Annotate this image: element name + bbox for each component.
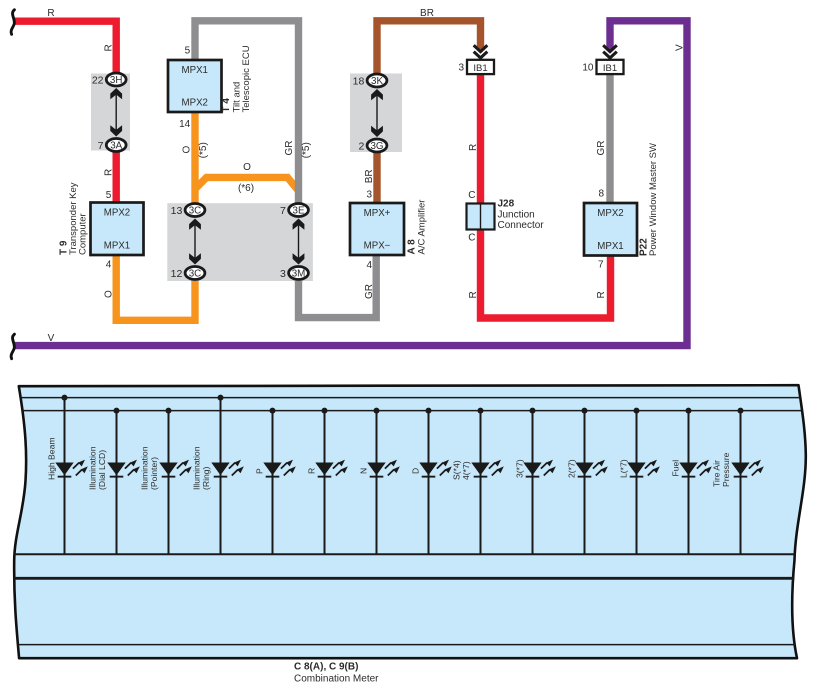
junction dot for 2(*7) <box>582 408 588 414</box>
lamp wire for Illumination (Dial LCD) <box>116 411 118 554</box>
connector panel 3C/3C/3E/3M shading <box>167 203 313 281</box>
meter bus line where lamp wires end <box>14 553 795 555</box>
lamp wire for 2(*7) <box>584 411 586 554</box>
connector 3C pin 13 <box>185 204 205 217</box>
twisted-pair arrow between 3K and 3G <box>376 94 378 132</box>
wire: GR from connector 3M pin 3 to A8 pin 4 (gray) <box>299 253 377 318</box>
svg-text:J28: J28 <box>498 199 515 210</box>
junction dot for L(*7) <box>634 408 640 414</box>
connector 3M pin 3 <box>289 267 309 280</box>
lamp wire for Illumination (Ring) <box>220 398 222 554</box>
junction dot for Fuel <box>686 408 692 414</box>
svg-text:BR: BR <box>364 169 375 183</box>
svg-text:L(*7): L(*7) <box>619 459 629 478</box>
svg-text:C: C <box>468 190 475 201</box>
LED R <box>315 460 348 478</box>
svg-text:R: R <box>103 44 114 51</box>
svg-text:13: 13 <box>171 205 183 217</box>
svg-text:2: 2 <box>358 140 364 152</box>
svg-text:Combination Meter: Combination Meter <box>294 673 379 684</box>
meter thick divider line <box>14 577 794 580</box>
LED Fuel <box>679 460 712 478</box>
svg-text:(Ring): (Ring) <box>201 466 211 490</box>
wire: V feed from IB1 no.10 around right side to left break (violet) <box>13 21 687 346</box>
combination meter body outline <box>14 385 806 658</box>
svg-text:(Pointer): (Pointer) <box>149 457 159 490</box>
svg-text:12: 12 <box>171 268 183 280</box>
svg-text:P: P <box>255 468 265 474</box>
chevron arrows into IB1 no.3 <box>474 45 488 58</box>
lamp wire for S(*4) 4(*7) <box>480 411 482 554</box>
svg-text:V: V <box>48 333 55 344</box>
svg-text:3C: 3C <box>189 205 202 216</box>
svg-text:Connector: Connector <box>498 220 545 231</box>
junction dot for Illumination (Dial LCD) <box>114 408 120 414</box>
twisted-pair arrow between 3C-13 and 3C-12 <box>194 224 196 260</box>
LED D <box>419 460 452 478</box>
svg-text:22: 22 <box>92 74 104 86</box>
svg-text:14: 14 <box>179 119 191 130</box>
lamp wire for D <box>428 411 430 554</box>
connector 3A pin 7 <box>106 139 126 152</box>
svg-text:R: R <box>103 169 114 176</box>
svg-text:Illumination: Illumination <box>88 446 98 490</box>
svg-text:O: O <box>243 162 251 173</box>
svg-text:3M: 3M <box>292 268 306 279</box>
svg-text:C 8(A), C 9(B): C 8(A), C 9(B) <box>294 662 358 673</box>
svg-text:Tire Air: Tire Air <box>712 460 722 487</box>
junction dot for S(*4) 4(*7) <box>478 408 484 414</box>
wire: R from connector 3A to T9 pin 5 (red) <box>112 149 119 204</box>
ECU box P22 Power Window Master SW <box>584 203 637 256</box>
svg-text:N: N <box>359 468 369 474</box>
svg-text:Pressure: Pressure <box>721 452 731 487</box>
LED 3(*7) <box>523 460 556 478</box>
svg-text:O: O <box>103 290 114 298</box>
wire: R from J28 to P22 pin 7 (red) <box>481 229 611 318</box>
lamp wire for Tire Air Pressure <box>740 411 742 554</box>
svg-text:7: 7 <box>98 140 104 152</box>
svg-text:IB1: IB1 <box>473 63 487 74</box>
svg-text:High Beam: High Beam <box>47 437 57 480</box>
LED Tire Air Pressure <box>731 460 764 478</box>
svg-text:R: R <box>468 144 479 151</box>
svg-text:5: 5 <box>106 190 112 201</box>
wire: O from T4 pin 14 to connector 3C pin 13 (orange) <box>191 111 198 205</box>
svg-text:18: 18 <box>353 75 365 87</box>
svg-text:D: D <box>411 468 421 474</box>
junction dot for High Beam <box>62 395 68 401</box>
junction dot for N <box>374 408 380 414</box>
svg-text:3(*7): 3(*7) <box>515 459 525 478</box>
LED Illumination (Pointer) <box>159 460 192 478</box>
break symbol at left end of violet wire <box>11 334 14 359</box>
svg-text:7: 7 <box>598 259 604 270</box>
LED N <box>367 460 400 478</box>
lamp wire for High Beam <box>64 398 66 554</box>
svg-text:R: R <box>307 468 317 474</box>
svg-text:3H: 3H <box>110 75 123 86</box>
ECU box T4 Tilt and Telescopic ECU <box>168 60 222 112</box>
svg-text:R: R <box>596 291 607 298</box>
svg-text:3K: 3K <box>371 76 383 87</box>
svg-text:A/C Amplifier: A/C Amplifier <box>416 200 427 255</box>
twisted-pair arrow between 3H and 3A <box>115 93 117 132</box>
lamp wire for Fuel <box>688 411 690 554</box>
svg-text:4: 4 <box>106 260 112 271</box>
svg-text:2(*7): 2(*7) <box>567 459 577 478</box>
svg-text:Illumination: Illumination <box>140 446 150 490</box>
svg-text:Power Window Master SW: Power Window Master SW <box>648 143 659 256</box>
svg-text:(Dial LCD): (Dial LCD) <box>97 450 107 490</box>
LED 2(*7) <box>575 460 608 478</box>
lamp wire for P <box>272 411 274 554</box>
svg-text:Illumination: Illumination <box>192 446 202 490</box>
svg-text:8: 8 <box>598 188 604 199</box>
wire: R power feed from break to connector 3H (red) <box>13 21 116 76</box>
svg-text:MPX2: MPX2 <box>597 208 623 219</box>
svg-text:MPX−: MPX− <box>364 241 391 252</box>
svg-text:4: 4 <box>366 260 372 271</box>
svg-text:R: R <box>468 291 479 298</box>
svg-text:GR: GR <box>284 141 295 156</box>
svg-text:MPX1: MPX1 <box>597 241 623 252</box>
svg-text:V: V <box>674 44 685 51</box>
svg-text:C: C <box>468 233 475 244</box>
junction dot for Illumination (Pointer) <box>166 408 172 414</box>
svg-text:(*5): (*5) <box>198 142 209 158</box>
svg-text:3: 3 <box>458 63 464 74</box>
svg-text:MPX2: MPX2 <box>182 98 208 109</box>
lamp wire for R <box>324 411 326 554</box>
wire: GR from IB1 no.10 to P22 pin 8 (gray) <box>606 74 613 204</box>
lamp wire for L(*7) <box>636 411 638 554</box>
connector panel 3K/3G shading <box>350 74 402 153</box>
svg-text:5: 5 <box>185 46 191 57</box>
meter internal rail 2 <box>22 410 801 412</box>
wire: BR from connector 3G to A8 pin 3 (brown) <box>373 150 380 204</box>
svg-text:10: 10 <box>582 63 594 74</box>
LED Illumination (Ring) <box>211 460 244 478</box>
junction dot for Tire Air Pressure <box>738 408 744 414</box>
junction dot for P <box>270 408 276 414</box>
ECU box T9 Transponder Key Computer <box>91 203 144 256</box>
svg-text:Computer: Computer <box>78 213 89 255</box>
svg-text:(*5): (*5) <box>301 142 312 158</box>
svg-text:3A: 3A <box>110 140 122 151</box>
LED Illumination (Dial LCD) <box>107 460 140 478</box>
wire: O from T9 pin 4 to connector 3C pin 12 (orange) <box>116 254 195 320</box>
svg-text:MPX+: MPX+ <box>364 208 391 219</box>
svg-text:(*6): (*6) <box>238 183 254 194</box>
ECU box A8 A/C Amplifier <box>350 203 404 255</box>
lamp wire for Illumination (Pointer) <box>168 411 170 554</box>
junction block IB1 no.10 <box>597 60 624 74</box>
svg-text:S(*4): S(*4) <box>452 460 462 480</box>
svg-text:MPX1: MPX1 <box>182 65 208 76</box>
svg-text:4(*7): 4(*7) <box>461 461 471 480</box>
svg-text:3E: 3E <box>293 205 305 216</box>
svg-text:Junction: Junction <box>498 210 535 221</box>
svg-text:MPX2: MPX2 <box>104 208 130 219</box>
meter lower thin line <box>17 644 795 646</box>
junction connector J28 <box>467 204 495 230</box>
twisted-pair arrow between 3E and 3M <box>298 224 300 260</box>
svg-text:GR: GR <box>596 141 607 156</box>
svg-text:Telescopic ECU: Telescopic ECU <box>241 45 252 112</box>
svg-text:R: R <box>47 8 54 19</box>
lamp wire for N <box>376 411 378 554</box>
junction block IB1 no.3 <box>467 60 494 74</box>
meter internal rail 1 <box>21 397 800 399</box>
wire: GR from T4 pin 5 over to connector 3E pin 7 (gray) <box>195 21 299 205</box>
wire: BR feed to connector 3K and over to junction IB1 (brown) <box>377 21 481 76</box>
svg-text:MPX1: MPX1 <box>104 241 130 252</box>
connector panel 3H/3A shading <box>91 74 130 151</box>
svg-text:O: O <box>181 146 192 154</box>
svg-text:3C: 3C <box>189 268 202 279</box>
junction dot for R <box>322 408 328 414</box>
junction dot for D <box>426 408 432 414</box>
connector 3K pin 18 <box>367 74 387 87</box>
LED L(*7) <box>627 460 660 478</box>
svg-text:Fuel: Fuel <box>671 460 681 477</box>
svg-text:3: 3 <box>280 268 286 280</box>
connector 3C pin 12 <box>185 267 205 280</box>
svg-text:7: 7 <box>280 205 286 217</box>
svg-text:BR: BR <box>420 8 434 19</box>
LED S(*4) 4(*7) <box>471 460 504 478</box>
svg-text:3G: 3G <box>370 141 383 152</box>
wire: R from IB1 no.3 to junction connector J28 (red) <box>477 74 484 204</box>
connector 3H pin 22 <box>106 73 126 86</box>
junction dot for 3(*7) <box>530 408 536 414</box>
svg-text:GR: GR <box>364 284 375 299</box>
lamp wire for 3(*7) <box>532 411 534 554</box>
svg-text:IB1: IB1 <box>603 63 617 74</box>
junction dot for Illumination (Ring) <box>218 395 224 401</box>
connector 3G pin 2 <box>367 139 387 152</box>
wire: O branch (*6) joining orange run to gray run at 3E (orange) <box>195 177 299 190</box>
svg-text:3: 3 <box>366 190 372 201</box>
break symbol at left end of red feed wire <box>11 10 14 35</box>
chevron arrows into IB1 no.10 <box>603 45 617 58</box>
LED P <box>263 460 296 478</box>
LED High Beam <box>55 460 88 478</box>
connector 3E pin 7 <box>289 204 309 217</box>
